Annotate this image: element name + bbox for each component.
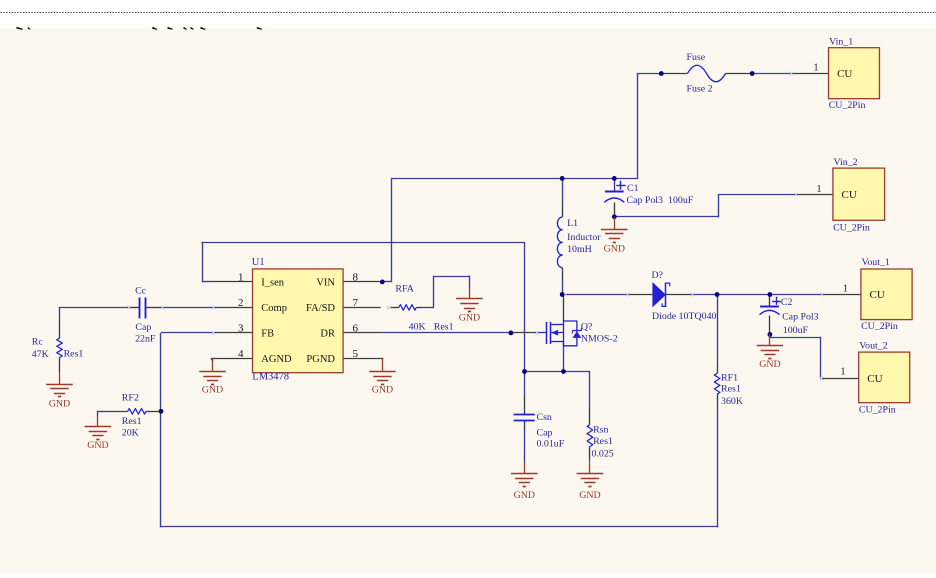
svg-text:1: 1 — [814, 63, 819, 74]
svg-text:6: 6 — [353, 322, 359, 334]
svg-text:Res1: Res1 — [64, 348, 84, 359]
svg-text:PGND: PGND — [306, 354, 335, 365]
svg-text:Cap Pol3: Cap Pol3 — [627, 195, 664, 206]
svg-text:GND: GND — [49, 399, 70, 410]
svg-text:FA/SD: FA/SD — [306, 303, 335, 314]
svg-text:47K: 47K — [32, 349, 50, 360]
svg-text:20K: 20K — [122, 428, 140, 439]
svg-text:GND: GND — [372, 384, 393, 395]
svg-text:U1: U1 — [252, 257, 265, 268]
svg-text:Rc: Rc — [32, 337, 44, 348]
svg-text:CU_2Pin: CU_2Pin — [861, 321, 898, 332]
svg-text:100uF: 100uF — [783, 325, 809, 336]
svg-text:LM3478: LM3478 — [252, 371, 289, 382]
svg-text:0.01uF: 0.01uF — [537, 439, 565, 450]
svg-text:Cc: Cc — [135, 285, 147, 296]
svg-text:Res1: Res1 — [593, 436, 613, 447]
svg-text:2: 2 — [238, 297, 244, 309]
svg-text:GND: GND — [87, 440, 108, 451]
svg-text:Cap: Cap — [537, 428, 553, 439]
svg-text:1: 1 — [817, 184, 822, 195]
svg-text:Rsn: Rsn — [593, 425, 608, 436]
svg-text:8: 8 — [353, 271, 359, 283]
svg-text:Res1: Res1 — [122, 416, 142, 427]
svg-text:10mH: 10mH — [567, 244, 592, 255]
svg-text:Comp: Comp — [261, 303, 287, 314]
svg-text:GND: GND — [514, 490, 535, 501]
svg-text:NMOS-2: NMOS-2 — [581, 334, 618, 345]
svg-text:CU: CU — [870, 289, 885, 301]
svg-text:Q?: Q? — [581, 321, 593, 332]
svg-text:Inductor: Inductor — [567, 232, 601, 243]
svg-text:DR: DR — [320, 329, 335, 340]
svg-text:Vout_2: Vout_2 — [859, 341, 887, 352]
svg-text:4: 4 — [238, 348, 244, 360]
svg-text:AGND: AGND — [261, 354, 292, 365]
svg-text:Csn: Csn — [537, 412, 552, 423]
svg-text:CU_2Pin: CU_2Pin — [829, 100, 866, 111]
svg-text:I_sen: I_sen — [261, 278, 284, 289]
svg-text:GND: GND — [459, 313, 480, 324]
svg-text:Res1: Res1 — [434, 322, 454, 333]
svg-text:Cap Pol3: Cap Pol3 — [782, 312, 819, 323]
svg-text:GND: GND — [202, 384, 223, 395]
svg-text:100uF: 100uF — [668, 195, 694, 206]
svg-text:Res1: Res1 — [721, 384, 741, 395]
svg-text:Vin_2: Vin_2 — [834, 157, 858, 168]
svg-text:40K: 40K — [409, 322, 427, 333]
svg-text:1: 1 — [238, 271, 244, 283]
svg-text:1: 1 — [841, 367, 846, 378]
svg-text:Fuse: Fuse — [687, 52, 706, 63]
svg-text:D?: D? — [652, 270, 664, 281]
svg-text:7: 7 — [353, 297, 359, 309]
svg-text:Fuse 2: Fuse 2 — [687, 84, 713, 95]
svg-text:Vin_1: Vin_1 — [829, 37, 853, 48]
svg-text:Cap: Cap — [135, 322, 151, 333]
svg-text:CU: CU — [867, 373, 882, 385]
svg-text:GND: GND — [759, 359, 780, 370]
svg-text:C1: C1 — [627, 183, 639, 194]
svg-text:360K: 360K — [721, 396, 744, 407]
svg-text:CU_2Pin: CU_2Pin — [833, 222, 870, 233]
svg-text:VIN: VIN — [316, 278, 335, 289]
svg-text:1: 1 — [843, 284, 848, 295]
svg-text:RFA: RFA — [395, 283, 414, 294]
svg-text:L1: L1 — [567, 218, 578, 229]
svg-text:22nF: 22nF — [135, 334, 156, 345]
svg-text:CU_2Pin: CU_2Pin — [859, 404, 896, 415]
svg-text:0.025: 0.025 — [592, 449, 614, 460]
svg-text:C2: C2 — [781, 297, 793, 308]
svg-text:5: 5 — [353, 348, 359, 360]
svg-text:GND: GND — [579, 490, 600, 501]
svg-text:CU: CU — [837, 68, 852, 80]
svg-text:Vout_1: Vout_1 — [862, 257, 890, 268]
svg-text:3: 3 — [238, 322, 244, 334]
svg-text:Diode 10TQ040: Diode 10TQ040 — [652, 311, 717, 322]
svg-text:RF2: RF2 — [122, 393, 139, 404]
svg-text:GND: GND — [604, 244, 625, 255]
svg-text:CU: CU — [842, 189, 857, 201]
svg-text:RF1: RF1 — [721, 373, 738, 384]
svg-text:FB: FB — [261, 329, 274, 340]
